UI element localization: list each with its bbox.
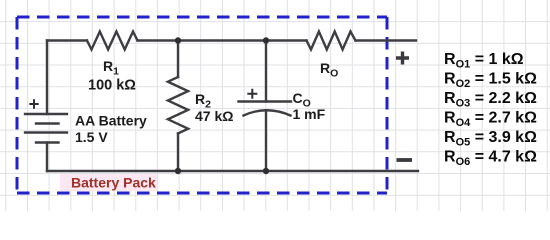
junction node: top rail / R2 xyxy=(175,37,181,43)
resistor R1 xyxy=(87,32,138,50)
output terminal - xyxy=(397,158,413,162)
wire: bottom rail xyxy=(47,170,418,172)
battery pack highlight xyxy=(60,174,157,191)
junction node: top rail / Co xyxy=(263,37,269,43)
svg-text:AA Battery: AA Battery xyxy=(75,113,147,129)
junction node: bottom rail / R2 xyxy=(175,168,181,174)
svg-text:100 kΩ: 100 kΩ xyxy=(88,78,136,94)
battery B1 plate short upper xyxy=(36,122,59,124)
output terminal + xyxy=(396,52,409,65)
battery B1 plate short bottom xyxy=(36,141,59,143)
wire: battery to bottom rail xyxy=(46,143,48,172)
wire: left vertical from top rail to battery xyxy=(46,41,48,115)
junction node: bottom rail / Co xyxy=(263,168,269,174)
resistor R2 xyxy=(168,77,188,133)
battery B1 plate long lower xyxy=(25,131,67,133)
battery polarity + sign xyxy=(29,99,38,108)
battery pack boundary (blue dashed box) xyxy=(17,17,387,193)
capacitor Co curved bottom plate xyxy=(244,110,291,115)
capacitor Co top plate xyxy=(239,100,292,102)
battery B1 plate long top xyxy=(25,113,67,115)
resistor Ro xyxy=(307,32,356,50)
svg-text:1 mF: 1 mF xyxy=(293,106,326,122)
svg-text:47 kΩ: 47 kΩ xyxy=(195,108,233,124)
wire: top rail left segment xyxy=(47,39,87,41)
wire: Co branch bottom lead xyxy=(265,110,267,171)
wire: R2 branch top lead xyxy=(177,41,179,78)
wire: R2 branch bottom lead xyxy=(177,133,179,171)
svg-text:1.5 V: 1.5 V xyxy=(75,129,108,145)
wire: top rail right segment to + terminal xyxy=(356,39,417,41)
svg-text:Battery Pack: Battery Pack xyxy=(71,175,156,191)
wire: Co branch top lead xyxy=(265,41,267,102)
wire: top rail middle segment xyxy=(138,39,307,41)
capacitor polarity + sign xyxy=(247,89,257,99)
